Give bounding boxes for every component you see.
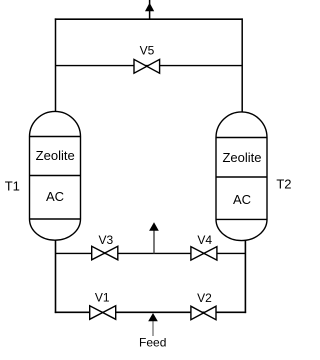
- svg-text:T1: T1: [5, 178, 20, 193]
- arrowhead product outlet: [145, 3, 154, 11]
- svg-text:AC: AC: [46, 189, 64, 204]
- valve V1: [90, 306, 116, 320]
- T2 bottom tangent line: [216, 218, 267, 220]
- wire left bottom vertical: [55, 240, 57, 314]
- valve V5: [134, 59, 160, 73]
- svg-text:V2: V2: [197, 291, 212, 305]
- T1 top tangent line: [30, 136, 81, 138]
- T2 top tangent line: [216, 137, 267, 139]
- wire vent riser: [153, 231, 155, 254]
- T1 bed boundary line: [30, 175, 81, 177]
- wire V5 equalization line: [56, 65, 242, 67]
- arrowhead vent: [149, 222, 159, 231]
- svg-text:V1: V1: [95, 291, 110, 305]
- svg-text:T2: T2: [276, 176, 291, 191]
- valve V4: [191, 247, 217, 261]
- valve V2: [191, 306, 216, 320]
- svg-text:Zeolite: Zeolite: [36, 148, 75, 163]
- wire right bottom vertical: [244, 240, 246, 313]
- wire product outlet riser: [149, 0, 151, 19]
- wire V3-V4 regeneration line: [56, 252, 246, 254]
- valve V3: [92, 246, 118, 259]
- wire bottom feed header: [55, 311, 246, 313]
- svg-text:V3: V3: [99, 233, 114, 247]
- svg-text:V5: V5: [140, 44, 155, 58]
- svg-text:Zeolite: Zeolite: [222, 150, 261, 165]
- svg-text:Feed: Feed: [139, 336, 166, 350]
- tower T2 vessel: [216, 112, 267, 241]
- arrowhead feed: [148, 313, 158, 321]
- T2 bed boundary line: [216, 176, 267, 178]
- T1 bottom tangent line: [30, 218, 81, 220]
- svg-text:V4: V4: [197, 233, 212, 247]
- wire left top vertical: [55, 18, 57, 112]
- svg-text:AC: AC: [233, 192, 251, 207]
- wire feed inlet stem: [152, 321, 154, 337]
- wire right top vertical: [241, 18, 243, 112]
- wire top header: [55, 18, 243, 20]
- tower T1 vessel: [30, 111, 81, 240]
